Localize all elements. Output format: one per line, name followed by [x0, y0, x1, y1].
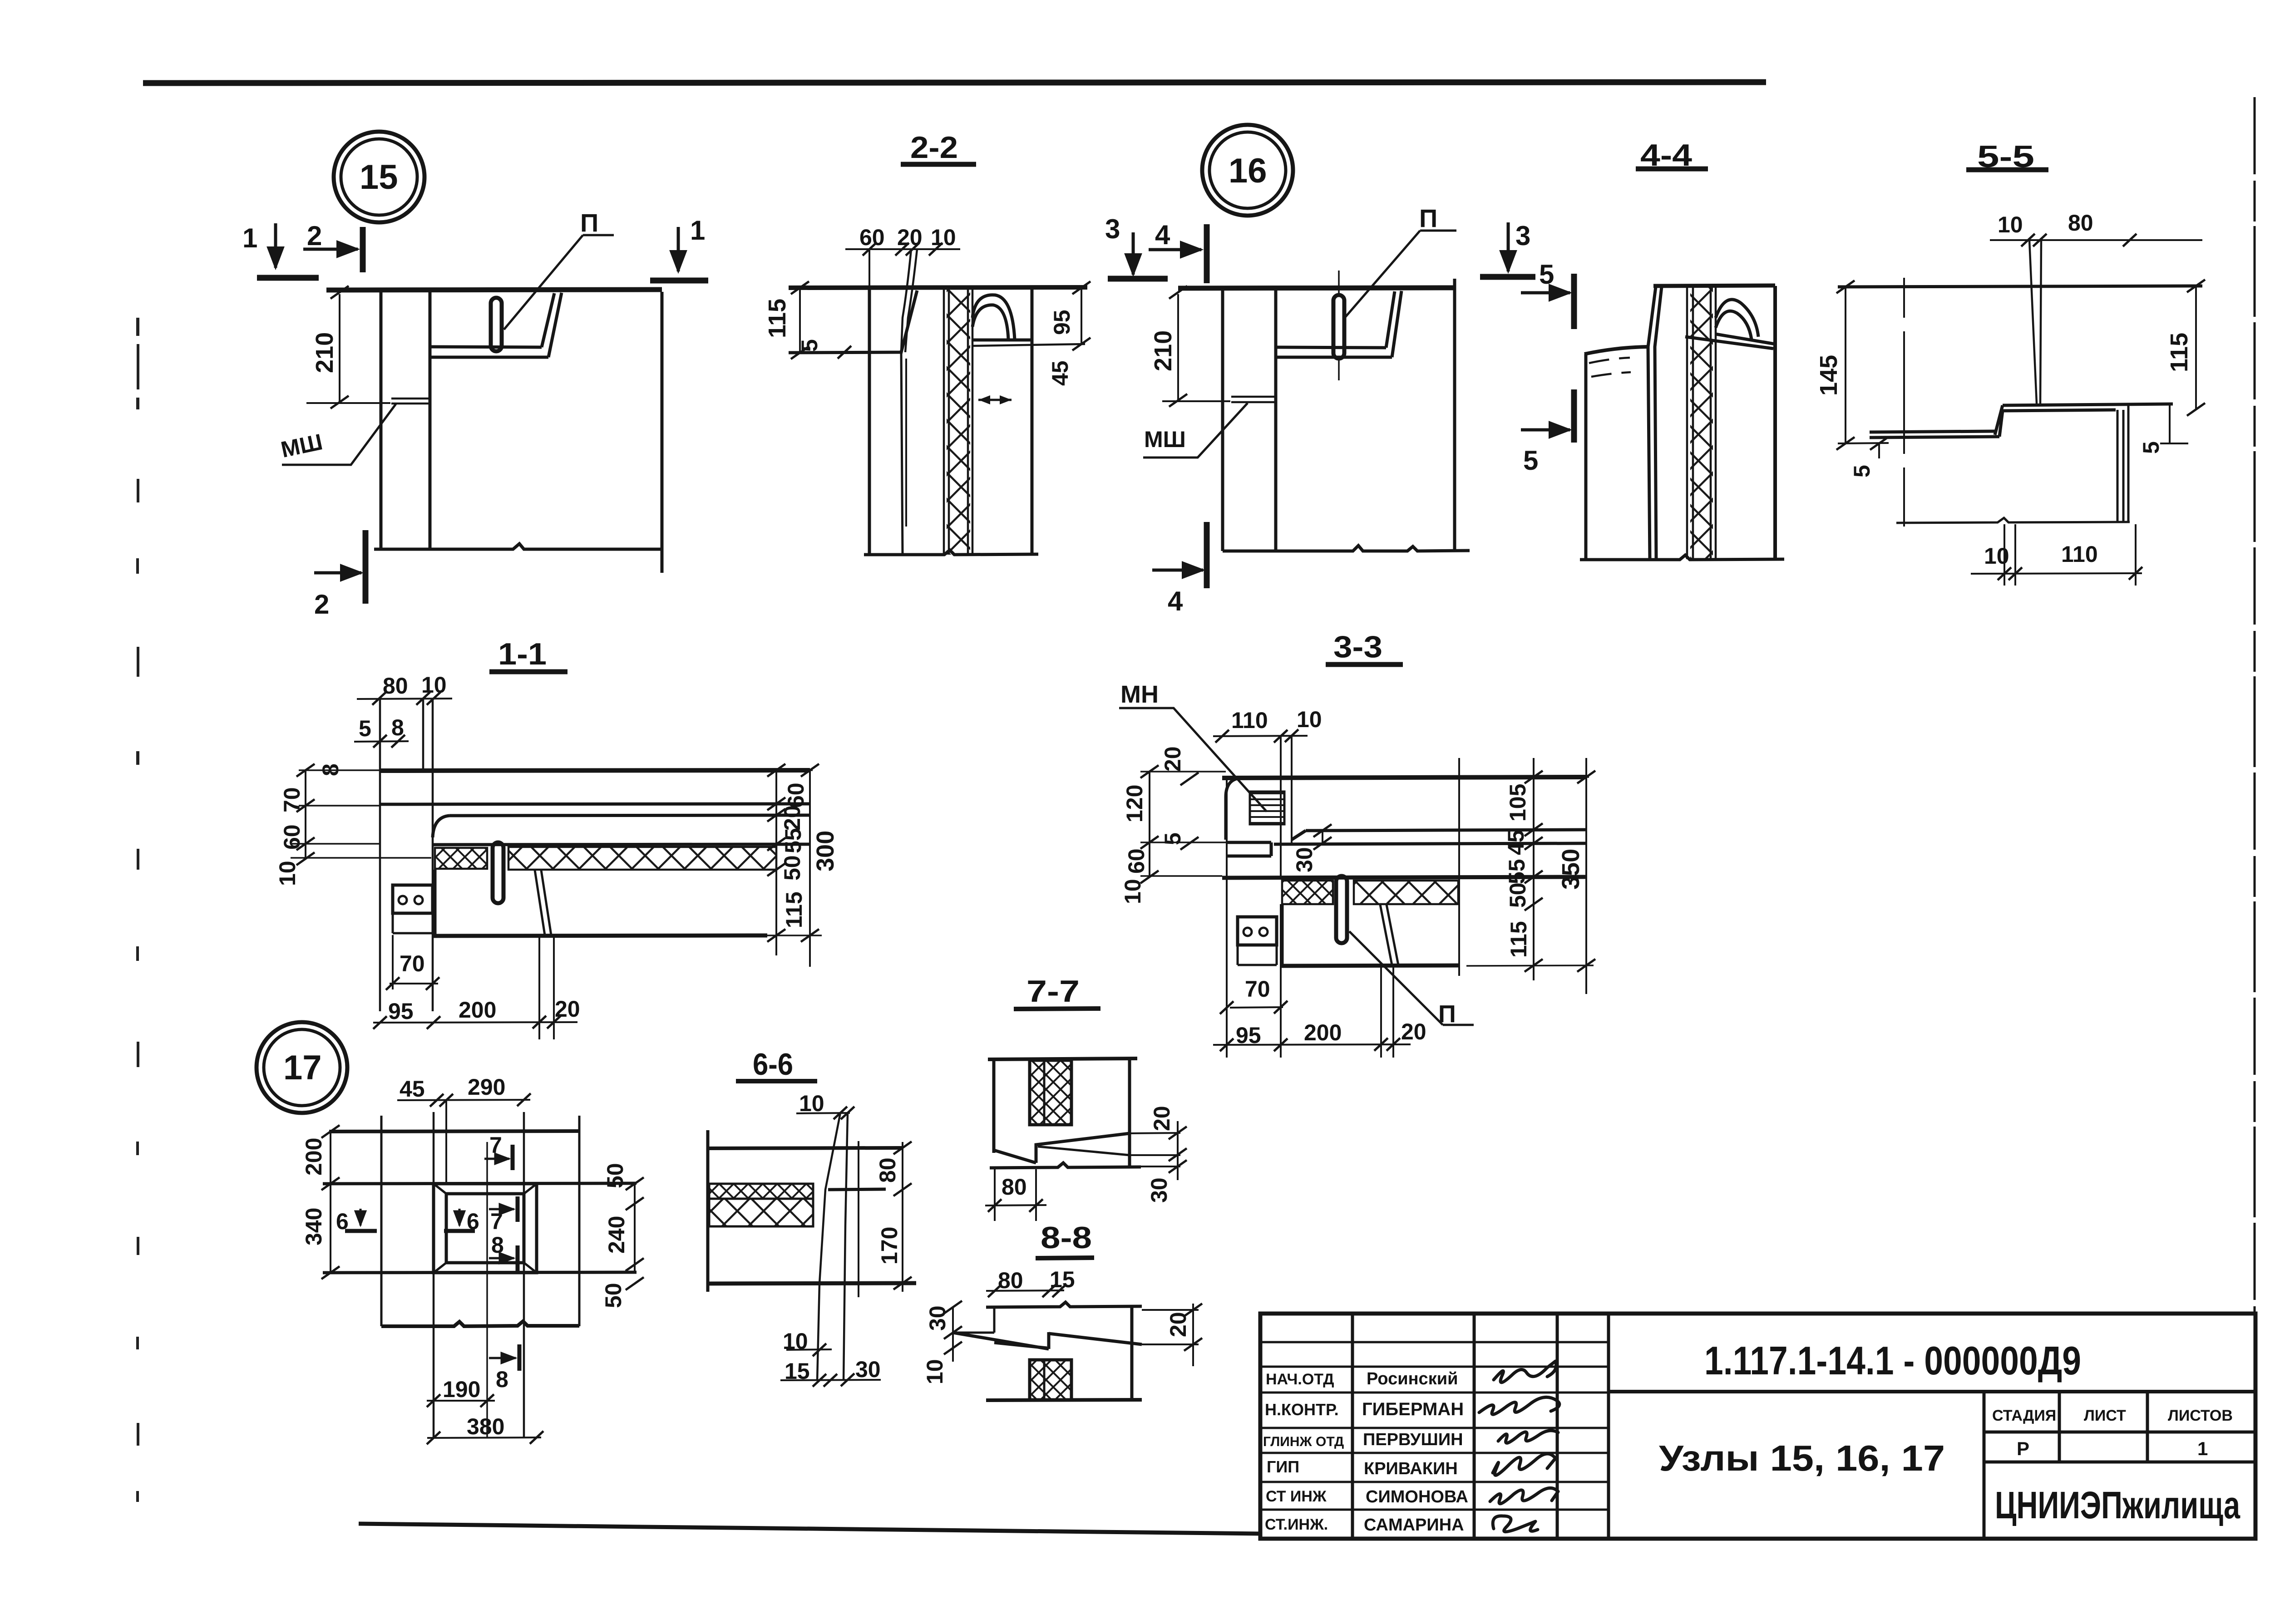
svg-text:115: 115 — [2166, 333, 2193, 372]
svg-text:ГИБЕРМАН: ГИБЕРМАН — [1362, 1399, 1464, 1419]
svg-text:ЛИСТОВ: ЛИСТОВ — [2168, 1407, 2233, 1424]
svg-text:210: 210 — [1150, 330, 1177, 371]
svg-text:170: 170 — [877, 1227, 902, 1265]
svg-text:СИМОНОВА: СИМОНОВА — [1366, 1487, 1468, 1506]
svg-text:105: 105 — [1505, 784, 1530, 822]
svg-text:300: 300 — [812, 831, 839, 871]
svg-text:10: 10 — [421, 672, 447, 698]
svg-text:8: 8 — [496, 1367, 508, 1392]
svg-text:20: 20 — [1149, 1106, 1174, 1131]
svg-text:70: 70 — [400, 951, 425, 976]
svg-text:80: 80 — [998, 1268, 1023, 1293]
svg-text:ПЕРВУШИН: ПЕРВУШИН — [1363, 1430, 1463, 1449]
svg-text:3: 3 — [1515, 221, 1530, 251]
svg-text:1: 1 — [242, 223, 257, 253]
svg-text:115: 115 — [781, 891, 807, 928]
svg-text:200: 200 — [1304, 1020, 1342, 1045]
svg-text:20: 20 — [897, 225, 923, 250]
svg-text:Н.КОНТР.: Н.КОНТР. — [1265, 1400, 1339, 1419]
svg-text:70: 70 — [1245, 976, 1270, 1002]
svg-text:60: 60 — [1124, 848, 1149, 874]
svg-text:1: 1 — [2197, 1438, 2208, 1459]
svg-text:СТАДИЯ: СТАДИЯ — [1992, 1407, 2056, 1424]
svg-text:7: 7 — [489, 1132, 502, 1158]
svg-text:КРИВАКИН: КРИВАКИН — [1364, 1459, 1458, 1478]
svg-text:ЦНИИЭПжилища: ЦНИИЭПжилища — [1995, 1484, 2240, 1526]
svg-text:45: 45 — [1503, 830, 1529, 855]
svg-text:200: 200 — [301, 1138, 326, 1176]
svg-text:120: 120 — [1122, 785, 1147, 822]
svg-text:115: 115 — [1506, 921, 1531, 958]
svg-text:ГЛИНЖ ОТД: ГЛИНЖ ОТД — [1263, 1434, 1344, 1449]
svg-text:ГИП: ГИП — [1267, 1457, 1299, 1476]
svg-text:350: 350 — [1557, 849, 1584, 890]
svg-text:10: 10 — [1998, 212, 2023, 237]
svg-text:115: 115 — [764, 299, 791, 338]
svg-text:5: 5 — [1523, 445, 1538, 476]
svg-text:110: 110 — [1231, 708, 1268, 733]
svg-text:45: 45 — [1047, 360, 1073, 386]
svg-text:10: 10 — [931, 225, 956, 250]
svg-text:45: 45 — [400, 1076, 425, 1102]
svg-text:3-3: 3-3 — [1333, 630, 1382, 664]
svg-text:80: 80 — [2068, 210, 2093, 236]
svg-text:5: 5 — [359, 716, 371, 741]
svg-text:1-1: 1-1 — [498, 637, 547, 671]
svg-text:380: 380 — [467, 1414, 504, 1439]
svg-text:55: 55 — [780, 828, 806, 853]
svg-text:8-8: 8-8 — [1041, 1220, 1092, 1255]
svg-text:30: 30 — [925, 1305, 950, 1331]
svg-text:5: 5 — [2138, 441, 2164, 454]
svg-text:4: 4 — [1155, 220, 1170, 250]
svg-text:30: 30 — [1146, 1177, 1172, 1203]
svg-text:П: П — [580, 208, 598, 237]
svg-text:10: 10 — [1984, 543, 2009, 569]
svg-text:190: 190 — [443, 1377, 480, 1402]
svg-text:МШ: МШ — [1144, 427, 1186, 452]
svg-text:340: 340 — [301, 1208, 326, 1245]
svg-text:80: 80 — [875, 1157, 900, 1183]
svg-text:5: 5 — [1539, 259, 1554, 290]
svg-text:50: 50 — [780, 855, 805, 881]
svg-text:15: 15 — [360, 158, 398, 197]
svg-text:5: 5 — [797, 339, 822, 352]
svg-text:МН: МН — [1120, 681, 1159, 708]
svg-text:Росинский: Росинский — [1367, 1369, 1458, 1388]
svg-text:1.117.1-14.1 - 000000Д9: 1.117.1-14.1 - 000000Д9 — [1704, 1338, 2081, 1383]
svg-text:2: 2 — [314, 589, 329, 620]
svg-text:5: 5 — [1160, 832, 1185, 845]
svg-text:САМАРИНА: САМАРИНА — [1364, 1516, 1464, 1535]
svg-text:7: 7 — [490, 1209, 503, 1234]
svg-text:80: 80 — [383, 673, 408, 699]
svg-text:СТ ИНЖ: СТ ИНЖ — [1266, 1488, 1327, 1505]
svg-text:7-7: 7-7 — [1026, 974, 1080, 1009]
svg-text:Узлы 15, 16, 17: Узлы 15, 16, 17 — [1659, 1438, 1945, 1478]
svg-text:20: 20 — [1165, 1312, 1191, 1337]
svg-text:2: 2 — [307, 221, 322, 251]
svg-text:95: 95 — [388, 999, 414, 1024]
svg-text:10: 10 — [922, 1359, 947, 1384]
svg-text:80: 80 — [1002, 1174, 1027, 1200]
svg-text:50: 50 — [1505, 882, 1530, 908]
svg-text:50: 50 — [602, 1163, 628, 1188]
svg-text:30: 30 — [855, 1357, 881, 1382]
svg-text:210: 210 — [311, 332, 338, 373]
svg-text:17: 17 — [283, 1048, 322, 1087]
svg-text:3: 3 — [1105, 214, 1120, 244]
svg-text:НАЧ.ОТД: НАЧ.ОТД — [1266, 1371, 1334, 1388]
svg-text:Р: Р — [2017, 1438, 2029, 1459]
svg-text:СТ.ИНЖ.: СТ.ИНЖ. — [1265, 1516, 1328, 1533]
svg-text:8: 8 — [491, 1232, 504, 1258]
svg-text:20: 20 — [1160, 746, 1185, 772]
svg-text:110: 110 — [2061, 541, 2098, 567]
svg-text:2-2: 2-2 — [910, 130, 958, 165]
svg-text:60: 60 — [783, 782, 809, 808]
svg-text:145: 145 — [1815, 355, 1842, 396]
svg-text:10: 10 — [1297, 707, 1322, 732]
svg-text:П: П — [1419, 204, 1437, 232]
svg-text:50: 50 — [601, 1283, 626, 1308]
svg-text:16: 16 — [1229, 152, 1267, 190]
svg-text:6-6: 6-6 — [753, 1047, 793, 1082]
svg-text:30: 30 — [1292, 847, 1317, 872]
svg-text:1: 1 — [690, 215, 705, 246]
svg-text:ЛИСТ: ЛИСТ — [2084, 1407, 2126, 1424]
svg-text:290: 290 — [468, 1074, 505, 1100]
svg-text:95: 95 — [1049, 310, 1075, 335]
svg-text:55: 55 — [1504, 859, 1530, 884]
svg-text:4: 4 — [1168, 586, 1183, 616]
svg-text:5: 5 — [1849, 465, 1875, 477]
svg-text:200: 200 — [459, 997, 496, 1023]
svg-text:240: 240 — [604, 1216, 629, 1254]
svg-text:20: 20 — [1401, 1019, 1426, 1044]
svg-text:20: 20 — [780, 805, 805, 831]
